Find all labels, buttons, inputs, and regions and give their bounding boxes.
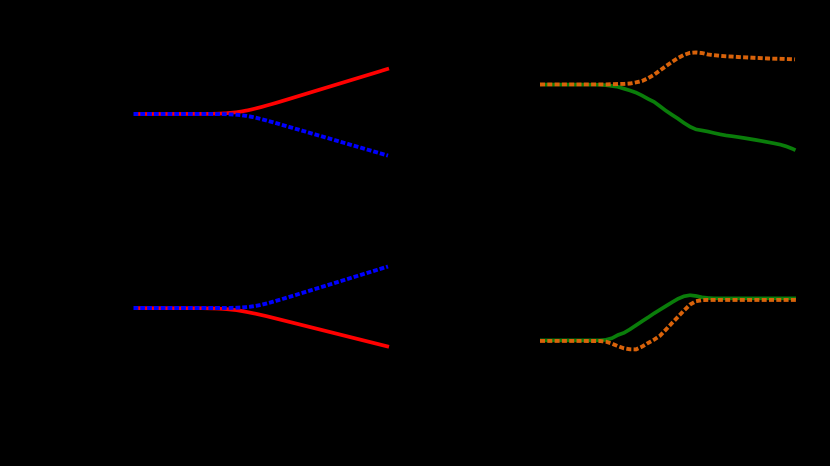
top-left panel: blue dashed falling branch — [134, 114, 389, 156]
top-right panel: orange dashed rising branch — [540, 52, 795, 84]
bottom-right panel: orange dashed dip-and-rise branch — [540, 300, 796, 350]
top-right panel: green solid falling branch — [540, 85, 796, 151]
top-left panel: red solid rising branch — [134, 69, 390, 115]
bottom-left panel: blue dashed rising branch — [134, 267, 389, 309]
bottom-right panel: green solid rising branch — [540, 295, 796, 340]
bottom-left panel: red solid falling branch — [134, 308, 390, 347]
